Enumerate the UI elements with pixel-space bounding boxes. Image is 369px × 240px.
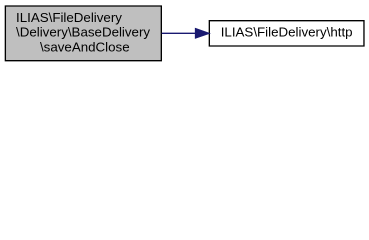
svg-text:\Delivery\BaseDelivery: \Delivery\BaseDelivery xyxy=(16,25,150,40)
svg-text:ILIAS\FileDelivery: ILIAS\FileDelivery xyxy=(16,10,122,25)
svg-text:ILIAS\FileDelivery\http: ILIAS\FileDelivery\http xyxy=(221,25,353,40)
doxygen-style call graph: saveAndClose -> http xyxy=(0,0,369,67)
edge Node1->Node2 wire xyxy=(162,32,196,34)
svg-text:\saveAndClose: \saveAndClose xyxy=(40,39,130,54)
background canvas xyxy=(0,0,369,67)
node Node1 box: ILIAS\FileDelivery\Delivery\BaseDelivery\saveAndClose (current node, grey) xyxy=(5,6,161,61)
node Node2 box: ILIAS\FileDelivery\http xyxy=(209,21,364,46)
edge Node1->Node2 arrowhead xyxy=(196,29,209,38)
